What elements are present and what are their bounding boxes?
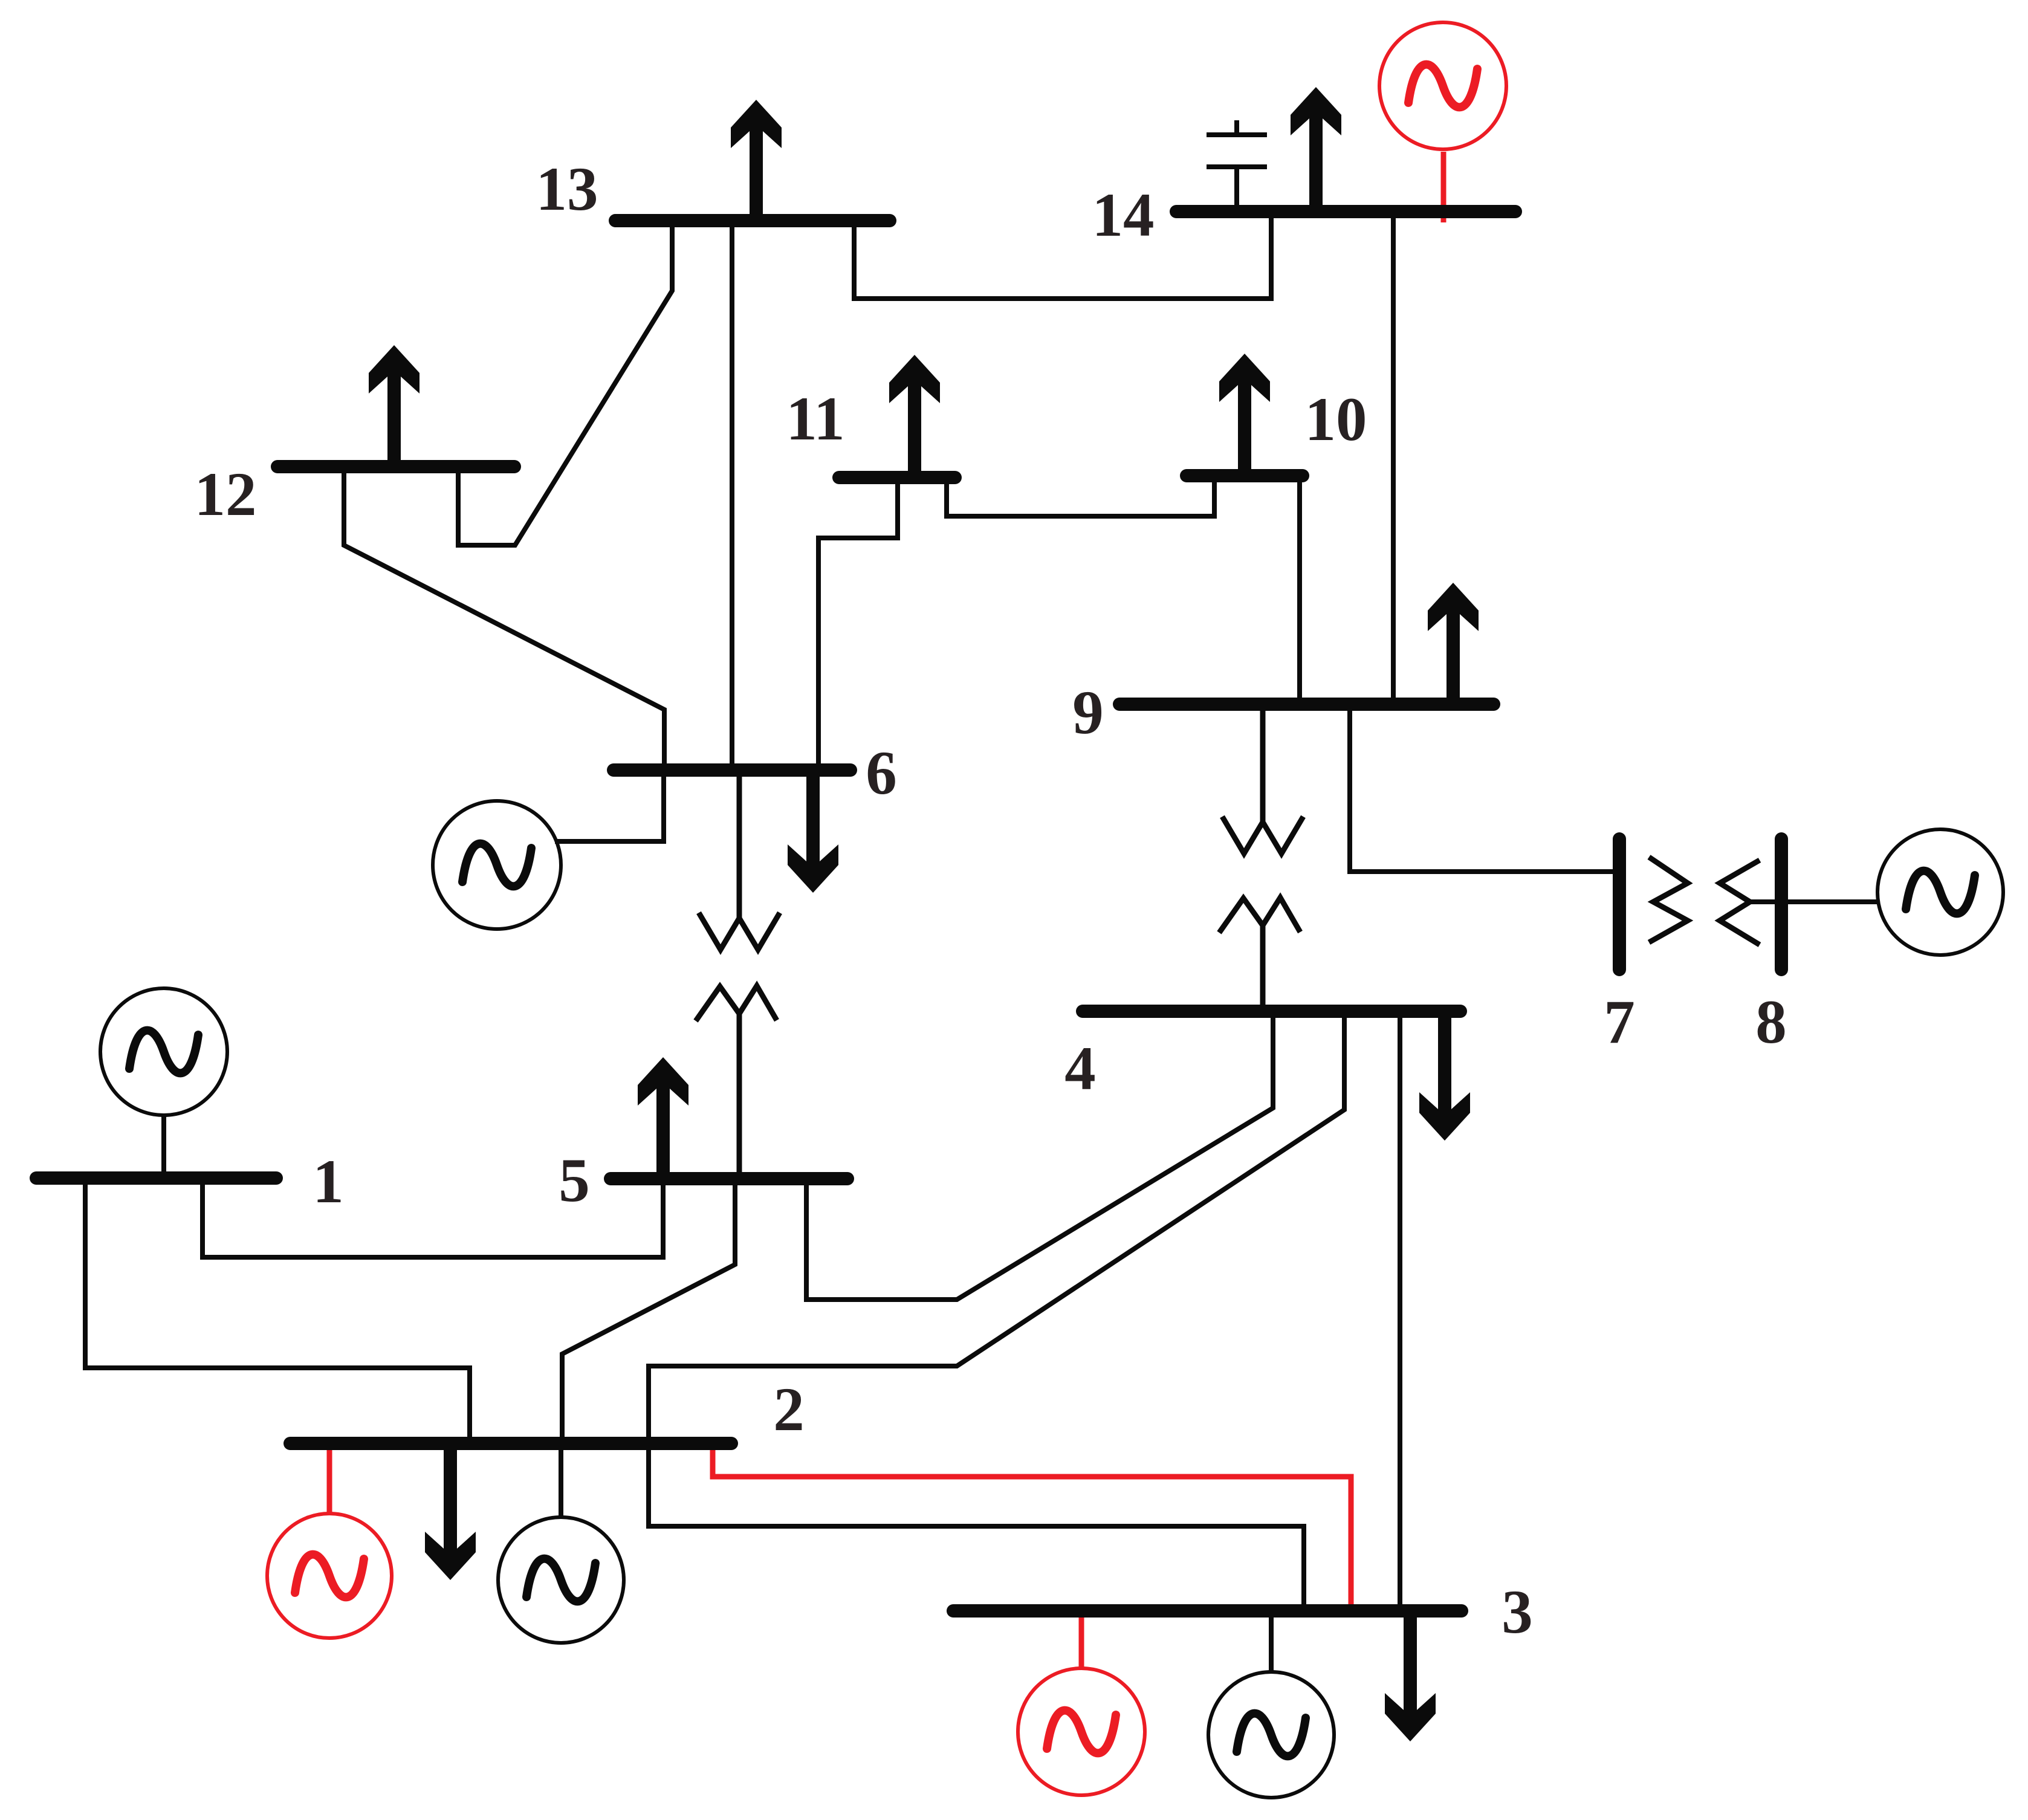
wire 4-5 — [806, 1011, 1273, 1300]
bus 10 — [1187, 469, 1303, 482]
svg-text:4: 4 — [1064, 1034, 1096, 1103]
bus 9 — [1119, 698, 1494, 711]
bus 5 — [611, 1172, 847, 1185]
load arrow bus 13 — [731, 100, 782, 221]
generator bus 2 red — [267, 1514, 392, 1638]
bus 6 — [614, 763, 850, 777]
bus 14 — [1176, 205, 1515, 218]
svg-text:11: 11 — [786, 384, 844, 453]
svg-text:6: 6 — [866, 739, 897, 808]
generator G1 (bus 1) — [100, 988, 227, 1115]
svg-text:5: 5 — [559, 1146, 590, 1215]
wire 12-13 — [458, 221, 672, 545]
transformer T4-9 — [1219, 704, 1303, 1011]
wire 1-5 — [202, 1178, 663, 1257]
transformer T7-8 — [1649, 857, 1760, 945]
wire 7-9 — [1350, 704, 1617, 872]
wire 2-3 — [649, 1445, 1304, 1611]
load arrow bus 12 — [369, 345, 420, 467]
load arrow bus 6 (down) — [788, 770, 838, 893]
generator bus 8 — [1877, 829, 2003, 955]
svg-text:3: 3 — [1502, 1578, 1533, 1647]
wire 2-4 — [649, 1011, 1344, 1445]
bus 13 — [615, 214, 890, 227]
svg-text:7: 7 — [1604, 988, 1635, 1057]
capacitor C14 — [1207, 120, 1267, 211]
svg-text:13: 13 — [536, 155, 598, 224]
generator bus 2 black — [498, 1517, 624, 1643]
bus 8 — [1775, 839, 1788, 970]
svg-text:2: 2 — [773, 1375, 805, 1444]
wire generator lead bus 6 — [555, 770, 664, 841]
load arrow bus 3 (down) — [1385, 1611, 1436, 1741]
wire 3-4 — [1398, 1011, 1402, 1611]
transformer T5-6 — [696, 770, 780, 1179]
bus 4 — [1083, 1005, 1460, 1018]
wire 6-13 — [730, 221, 734, 770]
bus 7 — [1613, 839, 1626, 970]
svg-text:10: 10 — [1305, 385, 1367, 454]
bus 2 — [290, 1437, 731, 1450]
load arrow bus 11 — [889, 355, 940, 478]
wire 10-11 — [947, 476, 1214, 516]
wire 1-2 — [85, 1178, 470, 1445]
wire 6-12 — [344, 467, 664, 770]
wire generator lead bus 14 red — [1441, 152, 1446, 222]
wire 2-5 — [562, 1179, 735, 1445]
wire 9-10 — [1297, 476, 1302, 704]
load arrow bus 5 — [638, 1057, 688, 1179]
svg-text:12: 12 — [195, 460, 257, 529]
wire 9-14 — [1391, 212, 1396, 704]
wire 6-11 — [818, 478, 898, 770]
svg-text:9: 9 — [1072, 678, 1104, 747]
svg-text:8: 8 — [1755, 988, 1787, 1057]
wire generator lead bus 3 red — [1079, 1613, 1084, 1668]
bus 11 — [839, 471, 955, 484]
load arrow bus 14 — [1291, 87, 1341, 212]
generator bus 3 black — [1208, 1672, 1334, 1798]
wire generator lead bus 2 red — [327, 1448, 332, 1514]
wire generator lead bus 3 black — [1269, 1611, 1274, 1672]
load arrow bus 4 (down) — [1419, 1011, 1470, 1141]
svg-text:1: 1 — [313, 1147, 344, 1216]
load arrow bus 10 — [1219, 354, 1270, 476]
load arrow bus 2 (down) — [425, 1445, 476, 1580]
bus 1 — [36, 1171, 276, 1185]
load arrow bus 9 — [1428, 583, 1479, 704]
generator bus 14 red — [1379, 22, 1506, 149]
wire 2-3 red — [713, 1448, 1351, 1608]
wire generator lead bus 2 black — [559, 1445, 563, 1517]
wire generator lead bus 8 — [1750, 899, 1879, 904]
bus 3 — [953, 1604, 1462, 1618]
wire 13-14 — [854, 212, 1271, 299]
wire generator lead bus 1 — [161, 1115, 166, 1178]
bus 12 — [277, 460, 514, 473]
generator bus 6 — [433, 801, 561, 929]
generator bus 3 red — [1018, 1668, 1145, 1795]
svg-text:14: 14 — [1092, 181, 1155, 250]
